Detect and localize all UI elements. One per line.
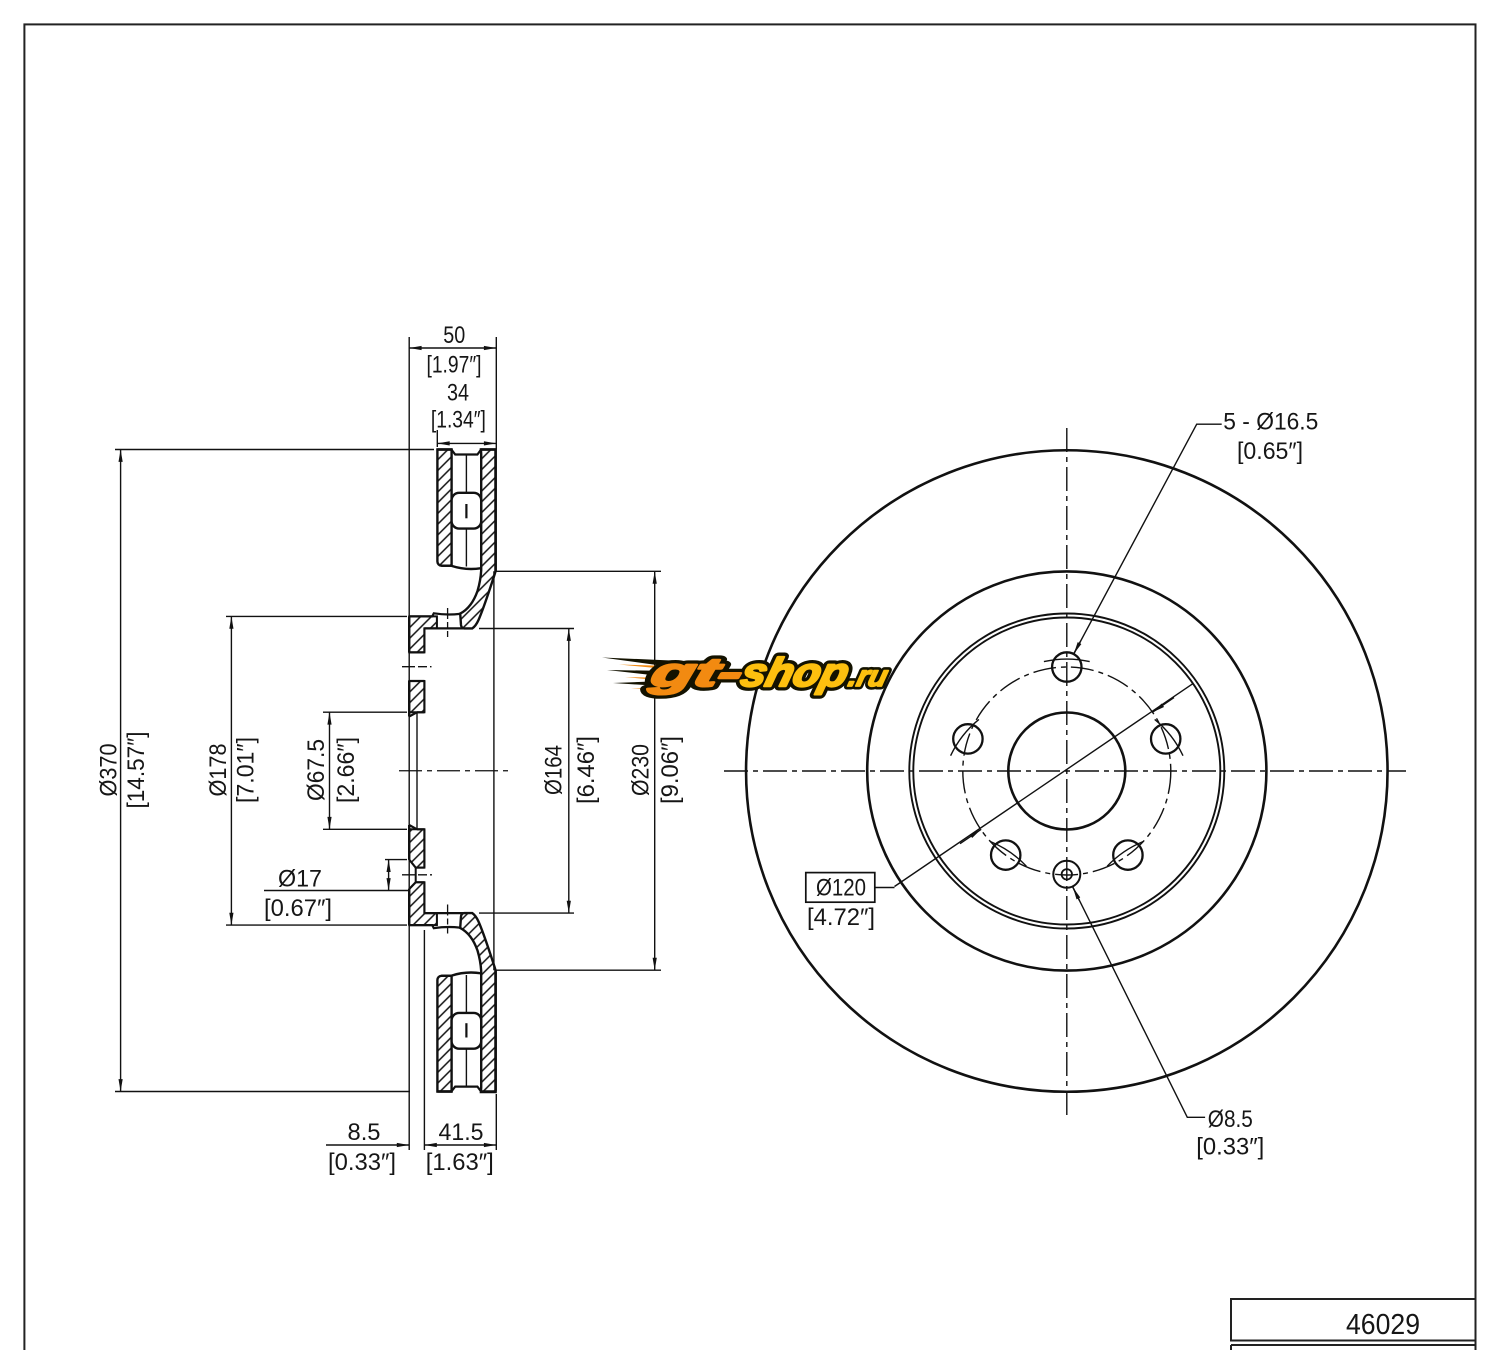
svg-text:[14.57″]: [14.57″] xyxy=(123,732,150,809)
D120 label box xyxy=(806,873,875,903)
top vent centerline xyxy=(465,456,467,567)
section dimension texts xyxy=(95,322,684,1176)
hatched hat flange lower part xyxy=(409,882,437,925)
svg-text:[0.33″]: [0.33″] xyxy=(1196,1134,1264,1161)
svg-text:[1.63″]: [1.63″] xyxy=(426,1149,494,1176)
svg-text:[6.46″]: [6.46″] xyxy=(573,736,600,804)
svg-text:[4.72″]: [4.72″] xyxy=(807,904,875,931)
D120 label leader xyxy=(875,887,895,889)
SECTION-VIEW xyxy=(115,337,661,1150)
logo speed spike orange 3 xyxy=(631,687,676,691)
drum centre tick bottom xyxy=(447,905,449,934)
bottom-left plate top edge xyxy=(441,975,451,977)
logo speed spike 3 xyxy=(613,681,676,688)
top vane hidden dash xyxy=(465,504,467,518)
hat flange inner face segments xyxy=(423,628,425,913)
stud hole top xyxy=(1052,652,1081,681)
D120 arrow upper-right xyxy=(1153,698,1174,713)
dim 8.5 and 41.5 extension lines xyxy=(424,930,496,1150)
stud hole edges in section xyxy=(409,652,424,681)
svg-text:.ru: .ru xyxy=(845,660,891,692)
hatched hat flange between stud hole and bore xyxy=(409,681,424,712)
svg-text:[0.65″]: [0.65″] xyxy=(1237,438,1303,465)
D120 diagonal dimension line xyxy=(895,684,1194,887)
dim D230 line xyxy=(654,571,656,970)
dim D17 extension lines xyxy=(264,860,409,891)
groove vertical top xyxy=(436,616,438,628)
hat outer circle D182 xyxy=(909,614,1224,929)
hat drum edge bottom xyxy=(424,912,464,914)
vent channel bottom dish xyxy=(452,1087,481,1092)
disc OD top edge xyxy=(437,448,495,451)
svg-text:Ø67.5: Ø67.5 xyxy=(303,739,330,801)
title block xyxy=(1231,1299,1476,1350)
svg-text:Ø370: Ø370 xyxy=(95,744,122,797)
hat flange circle D178 xyxy=(913,618,1220,925)
svg-text:[0.33″]: [0.33″] xyxy=(328,1149,396,1176)
svg-text:shop: shop xyxy=(737,650,854,695)
logo speed spike orange 2 xyxy=(625,677,673,682)
logo speed spike orange 1 xyxy=(619,665,671,670)
groove vertical bottom xyxy=(436,913,438,925)
svg-text:[7.01″]: [7.01″] xyxy=(232,737,259,803)
D120 arrow lower-left xyxy=(960,829,981,843)
dim 50 line xyxy=(409,347,496,349)
centre bore edges xyxy=(417,712,424,829)
svg-text:34: 34 xyxy=(447,380,469,407)
dim D67.5 line xyxy=(329,712,331,829)
hatched top-right friction plate and upper neck xyxy=(460,450,495,629)
dim D178 extension lines xyxy=(226,616,407,925)
dim D17 line xyxy=(388,860,390,891)
svg-text:Ø164: Ø164 xyxy=(540,745,567,795)
hatched bottom-left friction plate xyxy=(437,976,451,1092)
svg-text:[1.97″]: [1.97″] xyxy=(427,352,482,379)
drum centre tick top xyxy=(447,608,449,637)
bolt circle chords through holes xyxy=(951,659,1183,866)
hat drum edge top xyxy=(424,627,464,629)
bottom vent channel top curve xyxy=(452,972,482,975)
svg-text:Ø120: Ø120 xyxy=(816,875,866,902)
bottom vent vane xyxy=(452,1013,482,1049)
svg-text:Ø178: Ø178 xyxy=(205,744,232,797)
bottom vent centerline xyxy=(465,975,467,1086)
svg-text:46029: 46029 xyxy=(1346,1309,1420,1341)
bolt circle D120 dash-dot xyxy=(963,667,1171,875)
logo fill layer gt- xyxy=(645,650,894,695)
friction band inner circle D230 xyxy=(867,571,1266,970)
svg-text:8.5: 8.5 xyxy=(348,1119,381,1146)
centre bore chamfer edge line xyxy=(416,712,418,829)
centre bore chamfers xyxy=(409,712,417,829)
svg-text:Ø8.5: Ø8.5 xyxy=(1208,1106,1253,1133)
friction band inner edge line xyxy=(493,571,495,970)
countersink hole outline xyxy=(409,860,424,889)
bottom vane hidden dash xyxy=(465,1023,467,1037)
dim D370 line xyxy=(120,450,122,1092)
svg-text:[2.66″]: [2.66″] xyxy=(333,737,360,803)
svg-text:gt-: gt- xyxy=(645,650,748,695)
dim D230 extension lines xyxy=(497,571,662,970)
hatched bottom-right friction plate and lower neck xyxy=(460,913,495,1092)
svg-text:5 - Ø16.5: 5 - Ø16.5 xyxy=(1223,409,1318,436)
centre bore circle D67.5 xyxy=(1008,713,1125,830)
top vent vane xyxy=(452,493,482,529)
leader D8.5 arrow xyxy=(1073,887,1080,900)
logo outline layer xyxy=(645,650,894,695)
outboard friction face bottom xyxy=(494,971,497,1092)
set screw hole countersink D17 xyxy=(1053,861,1080,888)
dim 41.5 line xyxy=(424,1144,496,1146)
svg-text:Ø17: Ø17 xyxy=(278,866,322,893)
dim 34 extension line xyxy=(436,430,438,447)
hat mounting face segments xyxy=(408,616,410,925)
stud hole centre tick xyxy=(402,666,432,668)
svg-text:50: 50 xyxy=(443,322,465,349)
disc outer circle D370 xyxy=(746,450,1388,1092)
leader 5-D16.5 xyxy=(1074,424,1222,654)
set screw hole inner D8.5 xyxy=(1062,869,1072,879)
vertical centreline xyxy=(1066,428,1068,1119)
stud hole lower-left xyxy=(991,840,1020,869)
leader D8.5 xyxy=(1073,887,1205,1117)
logo speed spike 1 xyxy=(602,658,671,668)
logo speed spike 2 xyxy=(607,670,673,678)
hat top surface xyxy=(409,613,460,616)
part number box xyxy=(1231,1299,1476,1341)
dim D164 line xyxy=(568,629,570,914)
stud hole upper-left xyxy=(953,724,982,753)
top vent channel bottom curve xyxy=(452,566,482,569)
hat bottom surface xyxy=(409,925,460,928)
lower box top edge xyxy=(1231,1345,1476,1350)
svg-text:Ø230: Ø230 xyxy=(628,744,655,796)
dim D370 extension lines xyxy=(115,450,434,1092)
dim 50 extension lines xyxy=(409,337,496,1150)
dim 8.5 line xyxy=(326,1144,409,1146)
disc OD bottom edge xyxy=(437,1090,495,1093)
horizontal centreline xyxy=(724,770,1406,772)
watermark logo xyxy=(602,650,894,695)
dim D67.5 extension lines xyxy=(323,712,407,829)
svg-text:[0.67″]: [0.67″] xyxy=(264,895,332,922)
svg-text:[1.34″]: [1.34″] xyxy=(431,407,486,434)
svg-text:41.5: 41.5 xyxy=(439,1119,484,1146)
front view texts xyxy=(807,409,1318,1161)
stud hole lower-right xyxy=(1113,840,1142,869)
dim 34 line xyxy=(437,442,496,444)
vent channel top dish xyxy=(452,450,481,455)
leader 5-D16.5 arrow xyxy=(1074,641,1081,654)
hatched hat flange upper part xyxy=(409,616,437,652)
dim D178 line xyxy=(230,616,232,925)
stud hole upper-right xyxy=(1151,724,1180,753)
hatched hat flange between bore and countersink xyxy=(409,829,424,867)
FRONT-VIEW xyxy=(724,424,1406,1119)
section axis centreline xyxy=(399,770,513,772)
dim D164 extension lines xyxy=(479,629,574,914)
top-left plate bottom edge xyxy=(441,565,451,567)
countersink centre tick xyxy=(402,874,432,876)
hatched top-left friction plate xyxy=(437,450,451,566)
svg-text:[9.06″]: [9.06″] xyxy=(657,736,684,804)
outboard friction face top xyxy=(494,450,497,572)
